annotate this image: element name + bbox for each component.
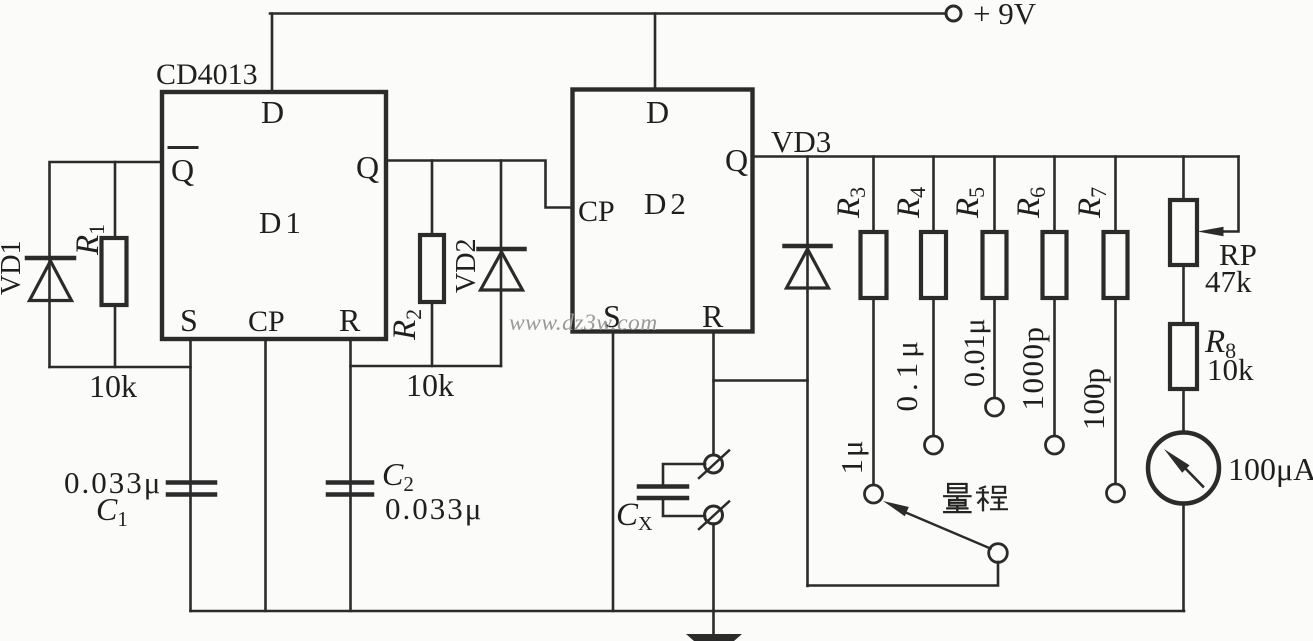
wire: D2 R pin down and right to VD3 branch [714, 332, 808, 381]
svg-text:VD3: VD3 [771, 124, 831, 159]
diode VD2 [451, 161, 525, 367]
svg-text:Q: Q [356, 149, 379, 185]
wire: rail to D1 D pin [271, 14, 274, 93]
wire: Q-bar net from D1 left to VD1 branch [50, 162, 163, 367]
svg-text:D1: D1 [259, 205, 305, 240]
svg-text:D: D [261, 94, 284, 130]
svg-text:0.033μ: 0.033μ [385, 491, 483, 526]
wire: D2 Q rail to the right [753, 155, 1239, 158]
wire: D1 S pin down to bottom rail [189, 339, 192, 611]
svg-text:10k: 10k [406, 367, 454, 403]
wire: D1 CP pin down to bottom rail [264, 339, 267, 611]
resistor R1 [70, 162, 127, 367]
power terminal +9V [946, 0, 1037, 31]
svg-text:Q: Q [725, 142, 748, 178]
resistor R6 [1011, 157, 1067, 438]
capacitor C1 [64, 465, 215, 531]
resistor R2 [387, 161, 444, 367]
potentiometer RP [1170, 157, 1257, 325]
wire: bottom rail [191, 610, 1185, 613]
switch contact 1000p [1046, 436, 1064, 454]
wire: D1 Q to D2 CP [386, 161, 573, 208]
wire: D2 S pin down to bottom rail [612, 332, 615, 612]
test terminal upper (Cx) [699, 381, 729, 479]
wire: +9V top rail [270, 12, 946, 15]
svg-text:CP: CP [248, 305, 285, 338]
ground [686, 611, 742, 641]
wire: rail to D2 D pin [654, 14, 657, 90]
svg-text:1μ: 1μ [834, 438, 869, 474]
svg-text:100μA: 100μA [1228, 451, 1313, 487]
switch contact 1u [865, 485, 883, 503]
svg-text:VD2: VD2 [451, 239, 482, 293]
svg-text:CP: CP [578, 195, 615, 228]
meter 100uA [1148, 433, 1313, 504]
wire: meter to bottom rail [1182, 504, 1185, 612]
wire: D1 R pin down to bottom rail [349, 339, 352, 611]
capacitor Cx (measured capacitor) [616, 464, 705, 535]
switch contact 0.01u [986, 398, 1004, 416]
rotary switch (range selector) [808, 501, 1008, 586]
svg-text:1000p: 1000p [1015, 326, 1050, 411]
resistor R5 [950, 157, 1007, 400]
svg-text:www.dz3w.com: www.dz3w.com [509, 310, 658, 336]
resistor R8 [1170, 324, 1254, 433]
test terminal lower (Cx) [699, 502, 729, 612]
resistor R4 [891, 157, 946, 438]
svg-text:D2: D2 [644, 186, 690, 221]
svg-text:100p: 100p [1076, 368, 1111, 430]
svg-text:+ 9V: + 9V [973, 0, 1037, 31]
IC D2 (CD4013 flip-flop) [573, 90, 753, 335]
resistor R7 [1072, 157, 1128, 486]
svg-text:47k: 47k [1205, 264, 1252, 299]
switch contact 100p [1107, 484, 1125, 502]
svg-text:Q: Q [171, 152, 194, 188]
svg-text:VD1: VD1 [0, 241, 27, 295]
svg-text:R: R [339, 302, 361, 338]
capacitor C2 [328, 456, 483, 526]
svg-text:10k: 10k [1207, 352, 1254, 387]
svg-text:CD4013: CD4013 [156, 58, 258, 91]
svg-text:R: R [702, 298, 724, 334]
IC D1 (CD4013 flip-flop) [156, 58, 386, 339]
svg-text:0.1μ: 0.1μ [889, 336, 924, 411]
label range (liang cheng) [943, 484, 1008, 512]
switch contact 0.1u [925, 436, 943, 454]
svg-text:0.01μ: 0.01μ [958, 318, 991, 387]
svg-text:10k: 10k [89, 368, 137, 404]
wire: 10k bottom wire left [50, 366, 191, 369]
resistor R3 [831, 157, 887, 487]
svg-text:S: S [180, 302, 198, 338]
wire: 10k bottom wire right [351, 365, 502, 368]
diode VD1 [0, 241, 74, 301]
svg-text:D: D [646, 94, 669, 130]
diode VD3 [785, 157, 831, 587]
